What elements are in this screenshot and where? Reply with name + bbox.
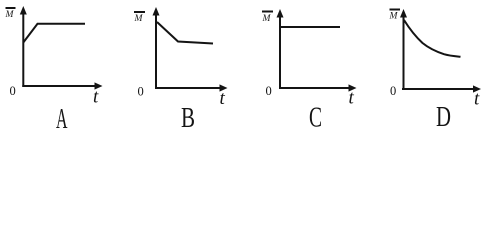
svg-text:C: C [309,102,322,134]
x-axis (D) [402,88,474,90]
x-axis arrowhead (C) [349,84,357,91]
y-axis (C) [279,14,281,88]
svg-text:M: M [5,10,15,20]
y-axis arrowhead (A) [20,6,27,15]
svg-text:t: t [93,87,99,108]
x-axis (A) [22,85,96,87]
panel B [134,7,228,134]
y-axis arrowhead (B) [153,7,160,16]
panel C [262,9,357,134]
y-axis arrowhead (C) [277,9,284,18]
panel D [389,9,482,134]
panel A [5,6,103,135]
svg-text:M: M [262,14,272,24]
curve (B): fall then plateau [157,22,213,44]
svg-text:t: t [349,88,355,109]
x-axis (B) [155,87,221,89]
y-axis label bar (B) [134,11,145,13]
svg-text:0: 0 [266,84,272,98]
y-axis (A) [22,11,24,87]
svg-text:t: t [474,89,480,110]
y-axis label bar (C) [262,11,273,13]
svg-text:M: M [389,12,399,22]
x-axis arrowhead (D) [473,85,481,92]
svg-text:M: M [134,14,144,24]
svg-text:0: 0 [390,84,396,98]
curve (A): rise then plateau [23,24,85,43]
x-axis arrowhead (B) [220,84,228,91]
svg-text:A: A [56,103,68,135]
svg-text:0: 0 [138,85,144,99]
svg-text:0: 0 [10,84,16,98]
x-axis arrowhead (A) [95,82,103,89]
y-axis label bar (D) [390,9,401,11]
svg-text:t: t [220,88,226,109]
y-axis (D) [403,14,405,90]
curve (D): exponential decay [404,20,461,57]
y-axis (B) [155,12,157,89]
x-axis (C) [279,87,350,89]
curve (C): constant line [280,26,340,28]
y-axis label bar (A) [6,7,16,9]
svg-text:D: D [436,101,451,133]
y-axis arrowhead (D) [400,9,407,18]
svg-text:B: B [181,102,195,134]
